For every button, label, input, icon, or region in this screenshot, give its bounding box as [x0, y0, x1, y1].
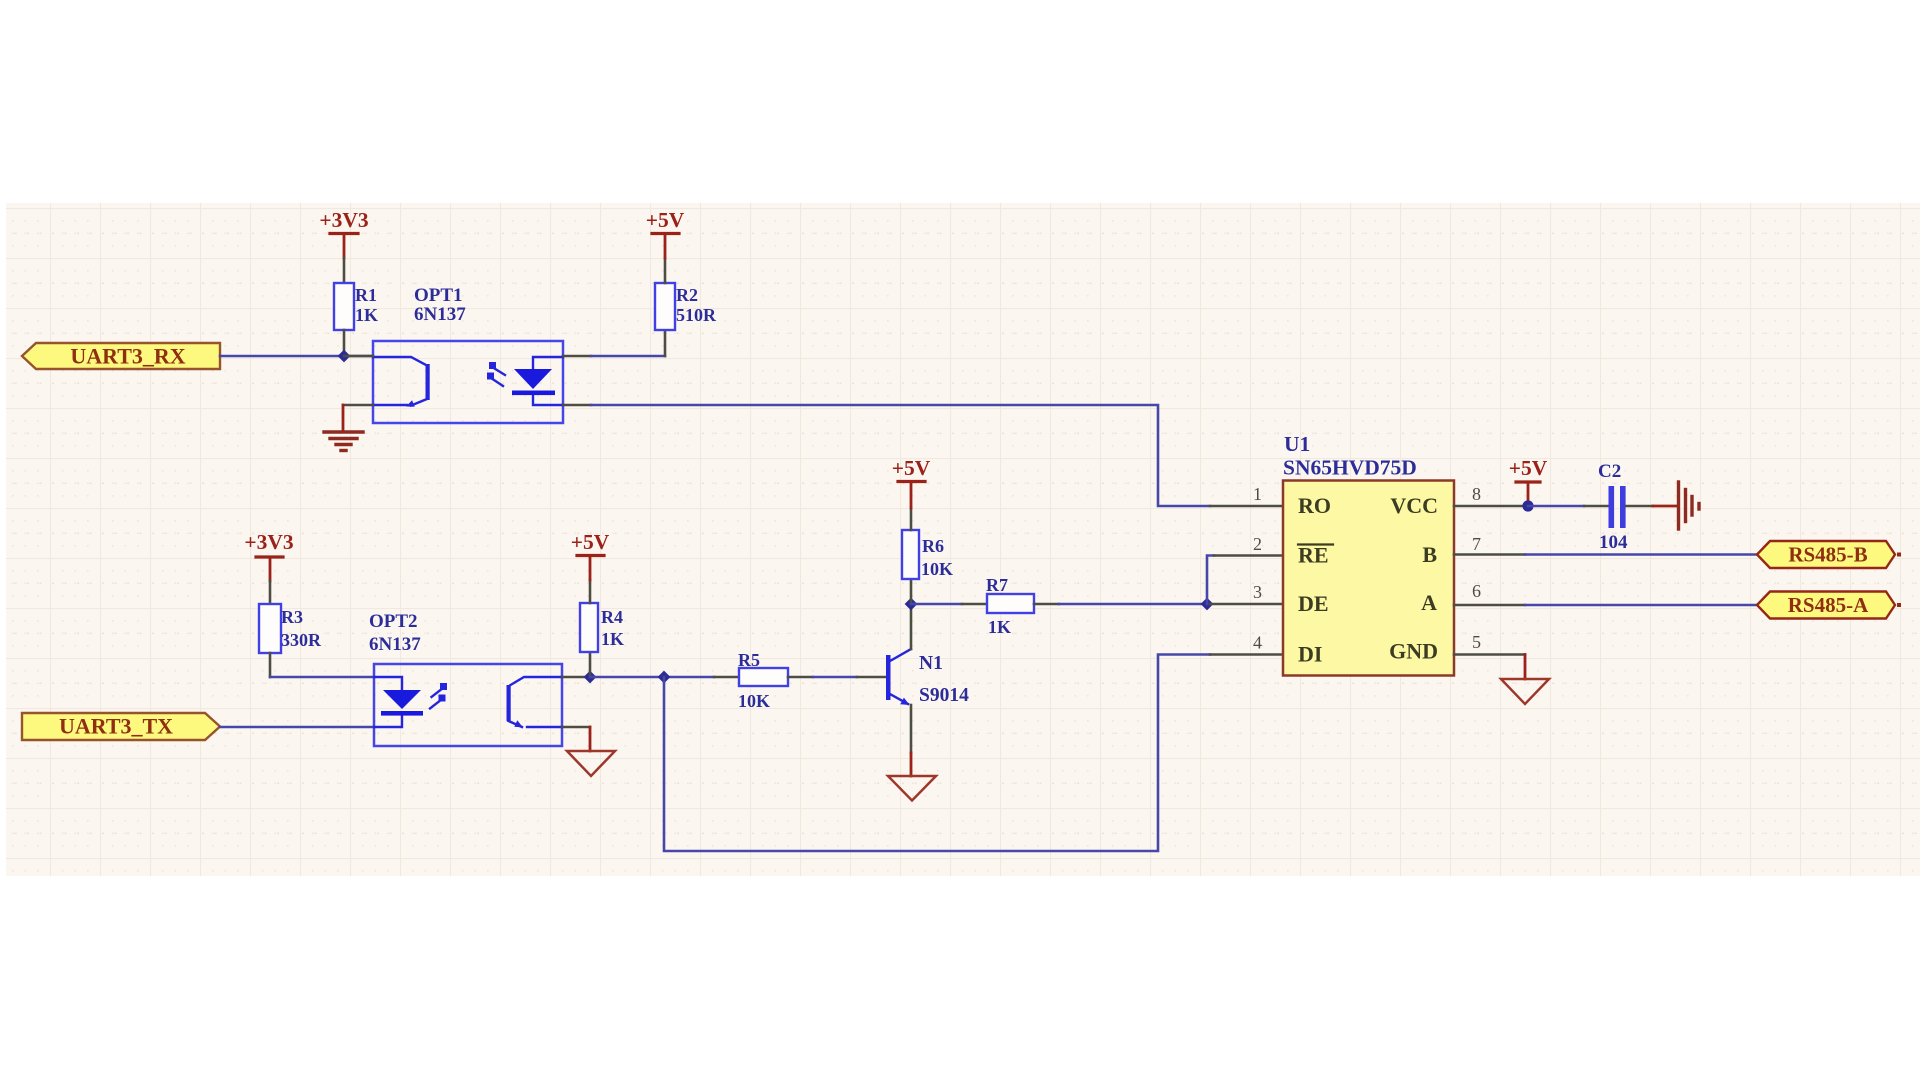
OPT2 phototransistor: [507, 677, 563, 727]
wire node to R5: [590, 676, 714, 679]
wire VCC to C2: [1528, 505, 1584, 508]
port RS485-B: [1757, 541, 1901, 568]
svg-text:6: 6: [1472, 581, 1481, 601]
svg-text:8: 8: [1472, 484, 1481, 504]
ground (triangle, below U1): [1501, 679, 1549, 704]
pin U1-4 DI: [1210, 653, 1283, 656]
ground earth (right of C2): [1679, 482, 1700, 529]
junction node OPT2/R4: [584, 671, 597, 684]
wire UART3_TX to OPT2: [220, 726, 374, 729]
pin U1-3 DE: [1210, 603, 1283, 606]
svg-text:+5V: +5V: [892, 456, 931, 480]
pin U1-6 A: [1454, 604, 1525, 607]
svg-text:OPT2: OPT2: [369, 611, 418, 632]
wire R6 top pin: [910, 508, 913, 530]
junction node VCC: [1522, 500, 1533, 511]
svg-text:R3: R3: [281, 607, 303, 627]
power +5V (above R2): [646, 208, 685, 258]
wire R4 bottom pin: [589, 652, 592, 677]
svg-text:5: 5: [1472, 632, 1481, 652]
svg-text:SN65HVD75D: SN65HVD75D: [1283, 456, 1417, 480]
svg-text:RS485-B: RS485-B: [1788, 543, 1867, 567]
power +5V (above R4): [571, 530, 610, 580]
svg-text:2: 2: [1253, 534, 1262, 554]
wire DI loop: [664, 655, 1210, 852]
svg-text:+3V3: +3V3: [319, 208, 369, 232]
svg-text:+3V3: +3V3: [244, 530, 294, 554]
power +3V3 (above R1): [319, 208, 369, 258]
svg-text:3: 3: [1253, 582, 1262, 602]
OPT1 phototransistor: [373, 357, 430, 406]
wire B to port: [1525, 553, 1760, 556]
wire R4 top pin: [589, 580, 592, 603]
resistor R6: [902, 530, 953, 579]
pin C2 left: [1584, 505, 1608, 508]
pin OPT1 LED top-right: [563, 355, 591, 358]
optocoupler OPT2 6N137: [369, 611, 562, 746]
svg-text:+5V: +5V: [571, 530, 610, 554]
svg-text:OPT1: OPT1: [414, 285, 463, 306]
svg-text:B: B: [1422, 542, 1437, 567]
pin OPT1 anode-in: [344, 355, 373, 358]
resistor R2: [655, 283, 717, 330]
resistor R1: [334, 283, 378, 330]
svg-text:510R: 510R: [676, 305, 717, 325]
optocoupler OPT1 6N137: [373, 285, 563, 423]
svg-text:VCC: VCC: [1390, 493, 1438, 518]
OPT2 LED: [374, 677, 402, 727]
pin R7 right: [1034, 603, 1059, 606]
wire emitter ground stem: [910, 753, 913, 776]
wire R3 top pin: [269, 581, 272, 604]
transistor N1 S9014: [886, 649, 969, 706]
pin C2 right: [1626, 505, 1653, 508]
pin U1-1 RO: [1210, 505, 1283, 508]
svg-text:R4: R4: [601, 607, 623, 627]
pin R5 right: [788, 676, 813, 679]
OPT2 light arrows: [430, 683, 447, 709]
wire R7 to DE: [1059, 603, 1210, 606]
wire R3 bottom pin: [269, 653, 272, 677]
resistor R4: [580, 603, 624, 652]
pin U1-5 GND: [1454, 653, 1525, 656]
wire R2 top pin: [664, 258, 667, 283]
svg-text:1: 1: [1253, 484, 1262, 504]
svg-text:N1: N1: [919, 653, 943, 674]
svg-text:6N137: 6N137: [414, 304, 466, 325]
ground (triangle, below OPT2): [567, 751, 615, 776]
junction node R6/R7: [905, 598, 918, 611]
power +5V (above R6): [892, 456, 931, 508]
svg-text:UART3_RX: UART3_RX: [70, 344, 185, 369]
port RS485-A: [1757, 592, 1901, 619]
svg-text:R7: R7: [986, 575, 1008, 595]
pin U1-7 B: [1454, 553, 1525, 556]
svg-text:R5: R5: [738, 650, 760, 670]
svg-text:U1: U1: [1284, 432, 1310, 456]
resistor R3: [259, 604, 322, 653]
pin N1 base: [857, 676, 886, 679]
svg-text:UART3_TX: UART3_TX: [59, 714, 173, 739]
svg-text:RS485-A: RS485-A: [1788, 593, 1869, 617]
wire R3 to OPT2: [270, 676, 374, 679]
pin U1-8 VCC: [1454, 505, 1525, 508]
junction node RX/R1: [338, 350, 351, 363]
wire R5 to N1 base: [813, 676, 857, 679]
svg-text:R2: R2: [676, 285, 698, 305]
wire C2 to earth: [1653, 505, 1677, 508]
wire OPT2 ground stem: [589, 727, 592, 751]
svg-text:DE: DE: [1298, 591, 1329, 616]
resistor R7: [986, 575, 1034, 637]
pin U1-2 RE: [1214, 554, 1283, 557]
svg-text:104: 104: [1599, 532, 1628, 553]
ground GND (bars, below OPT1): [324, 432, 363, 451]
svg-text:R1: R1: [355, 285, 377, 305]
svg-text:C2: C2: [1598, 461, 1621, 482]
pin OPT2 emitter-out: [562, 726, 590, 729]
svg-text:1K: 1K: [601, 629, 624, 649]
svg-text:DI: DI: [1298, 642, 1322, 667]
svg-text:10K: 10K: [921, 559, 953, 579]
wire UART3_RX to OPT1: [220, 355, 373, 358]
wire A to port: [1525, 604, 1760, 607]
pin R7 left: [962, 603, 987, 606]
pin OPT2 collector-out: [562, 676, 590, 679]
wire to ground stem: [342, 405, 345, 431]
wire OPT1 to R2: [591, 355, 665, 358]
IC U1 SN65HVD75D: [1283, 432, 1454, 676]
svg-text:7: 7: [1472, 534, 1481, 554]
svg-text:S9014: S9014: [919, 685, 969, 706]
capacitor C2: [1598, 461, 1628, 553]
pin N1 emitter: [910, 705, 913, 753]
pin R5 left: [714, 676, 739, 679]
svg-text:RO: RO: [1298, 493, 1331, 518]
svg-text:+5V: +5V: [646, 208, 685, 232]
resistor R5: [738, 650, 788, 711]
junction node DE/RE: [1201, 598, 1214, 611]
svg-text:10K: 10K: [738, 691, 770, 711]
svg-text:6N137: 6N137: [369, 634, 421, 655]
svg-text:+5V: +5V: [1509, 456, 1548, 480]
wire R2 bottom pin: [664, 330, 667, 356]
OPT1 light arrows: [487, 362, 505, 386]
svg-text:4: 4: [1253, 633, 1262, 653]
OPT1 LED: [533, 357, 563, 405]
svg-text:RE: RE: [1298, 543, 1329, 568]
pin OPT1 emitter-out: [343, 404, 373, 407]
port UART3_RX: [22, 343, 220, 369]
svg-text:330R: 330R: [281, 630, 322, 650]
junction node DI-loop: [658, 671, 671, 684]
wire junction to R7: [911, 603, 962, 606]
svg-text:GND: GND: [1389, 639, 1438, 664]
wire RE elbow: [1207, 556, 1214, 605]
svg-text:A: A: [1421, 590, 1437, 615]
wire R6 bottom pin: [910, 579, 913, 604]
port UART3_TX: [22, 713, 220, 740]
wire R1 bottom pin: [343, 330, 346, 356]
pin OPT1 LED bottom-right: [563, 404, 591, 407]
wire GND stem: [1524, 655, 1527, 680]
power +5V (at VCC): [1509, 456, 1548, 504]
svg-text:1K: 1K: [988, 617, 1011, 637]
svg-text:R6: R6: [922, 536, 944, 556]
power +3V3 (above R3): [244, 530, 294, 581]
ground (triangle, below N1): [888, 776, 936, 801]
wire OPT1 to U1 pin1: [591, 405, 1210, 506]
wire R1 top pin: [343, 258, 346, 283]
pin N1 collector: [910, 604, 913, 649]
svg-text:1K: 1K: [355, 305, 378, 325]
